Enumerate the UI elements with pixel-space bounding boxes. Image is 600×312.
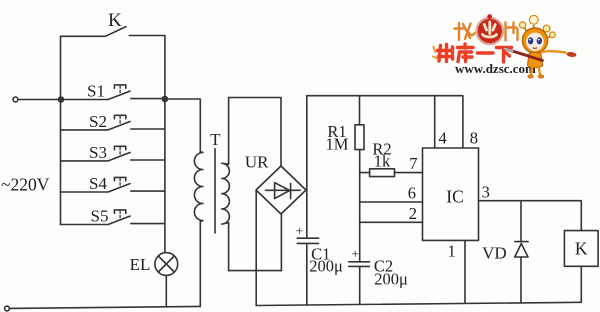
wire pin1 (464, 240, 466, 302)
svg-text:1M: 1M (326, 134, 349, 153)
svg-text:1k: 1k (374, 152, 391, 171)
wire primary top (165, 99, 200, 152)
wire bridge AC bottom vertex (280, 214, 282, 270)
diode VD (520, 201, 522, 242)
svg-text:6: 6 (408, 183, 416, 202)
wire bridge positive (right vertex) rail (306, 96, 308, 239)
wire pin3 (479, 201, 582, 231)
svg-text:UR: UR (245, 153, 269, 172)
wire left bus vertical (60, 36, 62, 224)
transformer T primary coil (194, 152, 203, 222)
svg-text:EL: EL (130, 255, 151, 274)
wire right bus vertical (164, 36, 166, 253)
wire input top (18, 99, 61, 101)
watermark logo dzsc (433, 14, 577, 78)
svg-text:1: 1 (447, 242, 455, 261)
op-amp timer IC U1 box (423, 148, 479, 240)
terminal top-left (13, 97, 18, 102)
svg-text:7: 7 (409, 154, 417, 173)
resistor R2 (360, 172, 370, 174)
svg-text:+: + (351, 248, 359, 263)
svg-text:200μ: 200μ (309, 256, 343, 275)
svg-text:200μ: 200μ (374, 270, 408, 289)
svg-text:S2: S2 (89, 112, 107, 131)
svg-text:K: K (108, 10, 122, 31)
svg-text:S3: S3 (89, 143, 107, 162)
node junction right (162, 97, 167, 102)
wire bottom negative rail (256, 302, 581, 305)
resistor R1 (359, 96, 361, 125)
lamp EL (155, 253, 178, 276)
wire pin2 (360, 221, 423, 223)
transformer core (214, 149, 216, 233)
svg-text:~220V: ~220V (1, 175, 50, 195)
terminal bottom-left (5, 306, 10, 311)
switch S1 (61, 91, 165, 99)
bridge rectifier UR diamond (256, 166, 306, 214)
svg-text:T: T (210, 130, 221, 149)
svg-text:K: K (575, 239, 588, 259)
wire top positive rail (307, 96, 463, 148)
wire pin6 (360, 201, 423, 203)
svg-text:IC: IC (446, 186, 464, 206)
capacitor C2 (349, 262, 370, 267)
svg-text:8: 8 (470, 129, 478, 148)
bridge diode (266, 189, 301, 191)
svg-text:VD: VD (482, 243, 507, 262)
switch S4 (61, 184, 165, 192)
switch S3 (61, 153, 165, 161)
svg-text:S4: S4 (89, 174, 107, 193)
wire R1 bottom to C2 vertical (359, 150, 361, 262)
svg-text:4: 4 (438, 129, 446, 148)
svg-text:www.dzsc.com: www.dzsc.com (455, 61, 536, 76)
transformer T secondary coil (222, 98, 230, 271)
wire input bottom (9, 306, 200, 308)
wire lamp to bottom (165, 275, 167, 306)
node junction left (59, 97, 64, 102)
switch K (relay contact) (61, 27, 165, 37)
svg-text:3: 3 (482, 182, 490, 201)
relay coil K box (564, 231, 598, 267)
wire pin4 (434, 96, 436, 148)
wire secondary top to bridge (229, 98, 281, 167)
svg-text:S1: S1 (87, 82, 105, 101)
wire bridge negative (left vertex) down (255, 191, 257, 306)
switch S2 (61, 122, 165, 130)
capacitor C1 (297, 238, 318, 243)
wire primary bottom (199, 222, 201, 307)
svg-text:+: + (295, 225, 303, 240)
svg-text:S5: S5 (91, 207, 109, 226)
switch S5 (61, 216, 165, 224)
wire secondary bottom to bridge (229, 270, 282, 272)
svg-text:2: 2 (409, 204, 417, 223)
